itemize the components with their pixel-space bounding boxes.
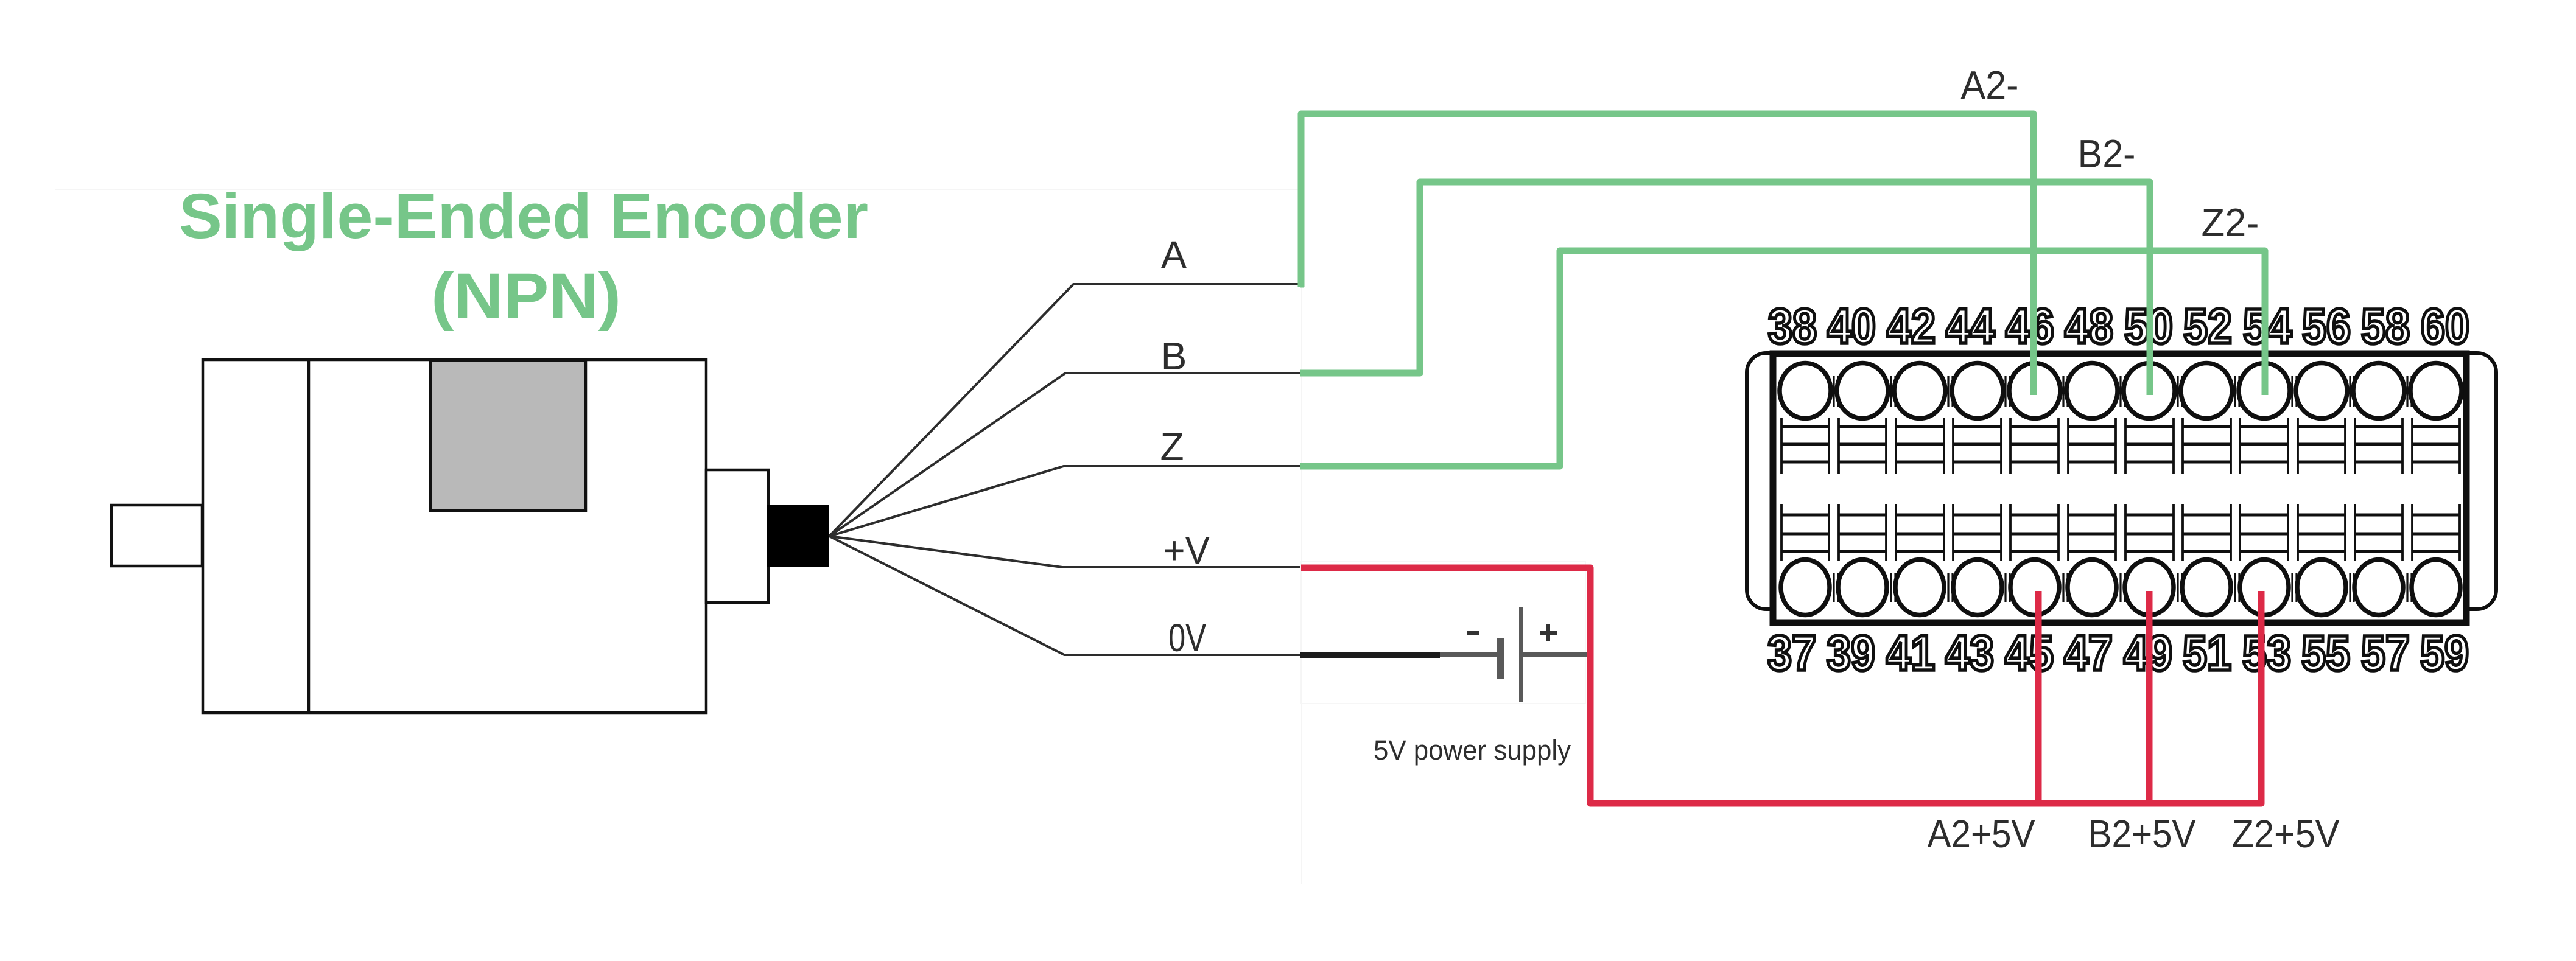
svg-text:47: 47	[2064, 626, 2113, 681]
svg-text:51: 51	[2183, 626, 2231, 681]
clamp ladders bottom band	[1781, 504, 2460, 561]
svg-text:Single-Ended Encoder: Single-Ended Encoder	[179, 181, 868, 252]
svg-text:B2+5V: B2+5V	[2088, 812, 2196, 856]
svg-text:A2+5V: A2+5V	[1928, 812, 2035, 856]
wire 0V thick segment	[1300, 652, 1440, 658]
wire lead B from plug	[829, 373, 1300, 536]
svg-text:46: 46	[2006, 299, 2054, 354]
battery plus sign	[1540, 624, 1557, 641]
wire A2- (green)	[1301, 114, 2034, 395]
svg-text:43: 43	[1945, 626, 1994, 681]
battery positive electrode	[1519, 607, 1523, 702]
terminal block frame	[1773, 354, 2466, 623]
pin bridges bottom row	[1834, 573, 2412, 602]
encoder rear connector	[706, 470, 768, 603]
encoder top gray block	[430, 360, 586, 511]
svg-text:44: 44	[1946, 299, 1995, 354]
svg-text:42: 42	[1887, 299, 1936, 354]
battery negative electrode	[1497, 638, 1504, 679]
svg-text:Z: Z	[1160, 425, 1184, 469]
svg-text:52: 52	[2183, 299, 2232, 354]
wire A2- stub on A lead	[1300, 281, 1304, 288]
svg-text:39: 39	[1827, 626, 1875, 681]
svg-text:A2-: A2-	[1961, 63, 2019, 107]
svg-text:48: 48	[2065, 299, 2113, 354]
svg-text:Z2+5V: Z2+5V	[2232, 812, 2340, 856]
svg-text:56: 56	[2302, 299, 2351, 354]
pin contacts top row	[1780, 363, 2462, 419]
svg-text:37: 37	[1767, 626, 1816, 681]
svg-text:40: 40	[1827, 299, 1876, 354]
wire lead A from plug	[829, 284, 1300, 536]
svg-text:B2-: B2-	[2078, 131, 2136, 176]
pin bridges top row	[1834, 376, 2412, 407]
svg-text:(NPN): (NPN)	[431, 260, 621, 332]
svg-text:45: 45	[2005, 626, 2054, 681]
svg-text:57: 57	[2361, 626, 2410, 681]
svg-text:0V: 0V	[1168, 616, 1206, 660]
cable plug (black)	[767, 505, 829, 567]
svg-text:53: 53	[2242, 626, 2291, 681]
battery positive lead	[1523, 652, 1590, 657]
pin numbers bottom row 37-59	[1767, 626, 2469, 681]
wire lead 0V from plug	[829, 536, 1300, 655]
battery 5V: negative lead	[1440, 652, 1497, 657]
svg-text:+V: +V	[1163, 528, 1210, 572]
wire lead Z from plug	[829, 466, 1300, 536]
wire lead +V from plug	[829, 536, 1300, 567]
wire Z2- (green)	[1300, 251, 2265, 466]
terminal block outer shell	[1747, 353, 2496, 609]
svg-text:55: 55	[2301, 626, 2350, 681]
svg-text:58: 58	[2361, 299, 2410, 354]
wire B2- (green)	[1300, 182, 2150, 395]
wire +5V bus (red)	[1301, 568, 2261, 803]
svg-text:A: A	[1161, 233, 1187, 277]
svg-text:5V power supply: 5V power supply	[1374, 735, 1571, 766]
battery minus sign	[1467, 631, 1479, 635]
svg-text:41: 41	[1886, 626, 1935, 681]
wire B2+5V branch (red)	[2146, 591, 2153, 803]
svg-text:60: 60	[2421, 299, 2469, 354]
svg-text:Z2-: Z2-	[2202, 200, 2259, 245]
encoder shaft	[111, 505, 202, 566]
svg-text:59: 59	[2420, 626, 2469, 681]
svg-text:B: B	[1161, 334, 1187, 378]
svg-text:38: 38	[1768, 299, 1817, 354]
pin numbers top row 38-60	[1768, 299, 2469, 354]
clamp ladders top band	[1781, 418, 2460, 474]
pin contacts bottom row	[1781, 560, 2460, 615]
wire A2+5V branch (red)	[2035, 591, 2042, 803]
title: Single-Ended Encoder (NPN)	[179, 181, 868, 332]
encoder motor body	[203, 360, 706, 713]
